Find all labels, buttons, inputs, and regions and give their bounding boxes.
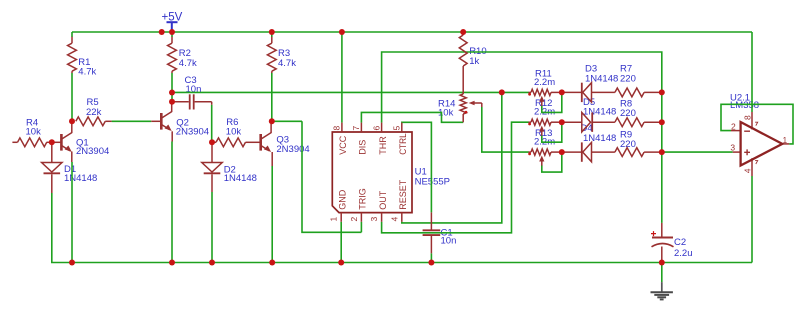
wire R3 top stub bbox=[271, 32, 273, 37]
wire C1 bottom bbox=[430, 253, 432, 262]
wire Q2 emitter stub bbox=[171, 131, 173, 141]
junction at (272,121) bbox=[269, 118, 275, 124]
capacitor C1 bbox=[430, 212, 432, 229]
svg-text:2N3904: 2N3904 bbox=[76, 146, 109, 157]
junction at (662,122) bbox=[659, 119, 665, 125]
svg-text:4.7k: 4.7k bbox=[278, 58, 296, 69]
power +5V symbol bbox=[167, 21, 178, 23]
wire trimmer wiper loop bbox=[542, 152, 562, 172]
svg-text:2.2u: 2.2u bbox=[674, 248, 693, 259]
junction at (172,102) bbox=[169, 99, 175, 105]
svg-text:220: 220 bbox=[620, 73, 636, 84]
IC U1 NE555P body bbox=[332, 132, 412, 213]
svg-text:10k: 10k bbox=[26, 127, 42, 138]
junction at (162,32) bbox=[159, 29, 165, 35]
svg-text:C2: C2 bbox=[674, 237, 686, 248]
potentiometer R14 bbox=[460, 94, 466, 114]
svg-text:4.7k: 4.7k bbox=[179, 58, 197, 69]
wire OUT net bbox=[382, 122, 529, 233]
wire CTRL net bbox=[402, 122, 432, 212]
wire output stub bbox=[782, 143, 789, 145]
transistor Q3 bbox=[259, 134, 262, 151]
svg-text:1N4148: 1N4148 bbox=[583, 107, 616, 118]
junction at (212,262) bbox=[209, 260, 215, 266]
transistor Q1 bbox=[60, 134, 63, 151]
ground bbox=[661, 263, 663, 283]
wire THR net bbox=[382, 52, 662, 123]
junction at (72,121) bbox=[69, 118, 75, 124]
junction at (341,262) bbox=[338, 260, 344, 266]
wire TRIG pin up bbox=[360, 222, 362, 233]
junction at (212,142) bbox=[209, 139, 215, 145]
svg-text:1N4148: 1N4148 bbox=[585, 74, 618, 85]
wire D2 anode bbox=[211, 142, 213, 162]
diode D5 bbox=[582, 113, 591, 132]
svg-text:RESET: RESET bbox=[398, 179, 408, 210]
svg-text:6: 6 bbox=[371, 126, 381, 131]
capacitor C2 bbox=[652, 237, 673, 239]
svg-text:NE555P: NE555P bbox=[415, 176, 450, 187]
junction at (172,32) bbox=[169, 29, 175, 35]
svg-text:CTRL: CTRL bbox=[398, 133, 408, 155]
junction at (431,262) bbox=[428, 260, 434, 266]
wire R13 right to D4 bbox=[562, 151, 582, 153]
resistor R2 bbox=[171, 37, 173, 43]
wire TRIG net vertical bbox=[302, 121, 361, 232]
junction at (272,262) bbox=[269, 260, 275, 266]
wire trimmer wiper loop bbox=[542, 92, 562, 112]
resistor R5 bbox=[76, 117, 106, 126]
trimmer R13 bbox=[529, 151, 532, 153]
wire GND pin down bbox=[340, 222, 342, 263]
svg-text:10k: 10k bbox=[226, 127, 242, 138]
wire opamp plus input bbox=[662, 151, 733, 153]
wire R1 bottom to Q1 collector node bbox=[71, 73, 73, 121]
svg-text:OUT: OUT bbox=[378, 190, 388, 210]
svg-text:2: 2 bbox=[349, 217, 359, 222]
svg-text:3: 3 bbox=[369, 217, 379, 222]
junction at (172,262) bbox=[169, 260, 175, 266]
wire D4 to R9 bbox=[592, 151, 615, 153]
wire DIS net bbox=[361, 112, 463, 122]
svg-text:7: 7 bbox=[351, 126, 361, 131]
wire right rail r1-r3 bbox=[661, 92, 663, 152]
svg-text:1N4148: 1N4148 bbox=[583, 133, 616, 144]
diode D4 bbox=[581, 142, 583, 161]
U1 pin 2 TRIG bbox=[360, 213, 362, 222]
wire R9 right bbox=[644, 151, 662, 153]
trimmer R11 bbox=[529, 91, 532, 93]
wire Q2 base stub bbox=[151, 120, 161, 122]
wire opamp V- stub bbox=[751, 158, 753, 176]
diode D2 bbox=[202, 163, 222, 173]
wire rail RESET net bbox=[172, 91, 529, 93]
wire D1 anode bbox=[51, 142, 53, 162]
resistor R9 bbox=[615, 148, 644, 157]
svg-text:4: 4 bbox=[389, 217, 399, 222]
wire R7 right bbox=[644, 91, 662, 93]
svg-text:8: 8 bbox=[332, 126, 342, 131]
wire R12 right to D5 bbox=[562, 121, 582, 123]
junction at (342,32) bbox=[339, 29, 345, 35]
op-amp U2.1 LM358 body bbox=[741, 122, 783, 166]
wire D3 to R7 bbox=[592, 91, 615, 93]
wire opamp V+ from rail bbox=[751, 32, 753, 112]
wire feedback loop bbox=[721, 104, 793, 144]
wire C2 bottom stub bbox=[661, 247, 663, 263]
svg-text:8: 8 bbox=[742, 115, 752, 120]
wire R8 right bbox=[644, 121, 662, 123]
svg-text:LM358: LM358 bbox=[730, 100, 759, 111]
U1 pin 1 GND bbox=[340, 213, 342, 222]
svg-text:3: 3 bbox=[730, 142, 735, 152]
wire D1 cathode bbox=[51, 174, 53, 193]
U1 pin 4 RESET bbox=[401, 213, 403, 222]
wire VCC pin up bbox=[341, 32, 343, 123]
wire Q2 emitter down bbox=[171, 142, 173, 263]
svg-text:GND: GND bbox=[337, 189, 347, 210]
trimmer R12 bbox=[529, 121, 532, 123]
junction at (463,32) bbox=[460, 29, 466, 35]
U1 pin 7 DIS bbox=[360, 123, 362, 132]
U1 pin 3 OUT bbox=[381, 213, 383, 222]
svg-text:1N4148: 1N4148 bbox=[224, 173, 257, 184]
svg-text:5: 5 bbox=[392, 126, 402, 131]
junction at (272,32) bbox=[269, 29, 275, 35]
junction at (562,152) bbox=[559, 149, 565, 155]
wire R2 bottom to node bbox=[171, 73, 173, 93]
wire opamp plus stub bbox=[733, 151, 741, 153]
svg-text:TRIG: TRIG bbox=[358, 188, 368, 210]
wire trimmer wiper loop bbox=[542, 122, 562, 142]
svg-text:4.7k: 4.7k bbox=[78, 67, 96, 78]
U1 pin 8 VCC bbox=[341, 123, 343, 132]
wire C2 branch bbox=[661, 152, 663, 223]
transistor Q2 bbox=[160, 113, 163, 130]
svg-text:1: 1 bbox=[783, 136, 788, 145]
svg-text:1k: 1k bbox=[469, 56, 479, 67]
wire D5 to R8 bbox=[592, 121, 615, 123]
diode D3 bbox=[581, 83, 583, 102]
svg-text:1: 1 bbox=[329, 217, 339, 222]
wire R14 bottom elbow bbox=[462, 114, 464, 122]
junction at (562,92) bbox=[559, 89, 565, 95]
wire opamp V+ stub bbox=[751, 112, 753, 130]
resistor R6 bbox=[212, 141, 216, 143]
wire Q3 collector to TRIG net bbox=[272, 120, 302, 122]
U1 pin 5 CTRL bbox=[401, 123, 403, 132]
U1 pin 6 THR bbox=[381, 123, 383, 132]
wire C2 top stub bbox=[661, 223, 663, 238]
junction at (662,152) bbox=[659, 149, 665, 155]
resistor R7 bbox=[615, 88, 644, 97]
resistor R1 bbox=[71, 37, 73, 43]
wire Q3 emitter stub bbox=[271, 152, 273, 166]
wire node to C3/Q2 collector bbox=[171, 93, 173, 102]
wire +5V top rail bbox=[72, 31, 752, 33]
resistor R8 bbox=[615, 118, 644, 127]
wire Q1 emitter down bbox=[71, 162, 73, 263]
junction at (662,92) bbox=[659, 89, 665, 95]
wire D1 to bottom rail bbox=[52, 193, 752, 263]
resistor R10 bbox=[462, 34, 464, 37]
wire opamp V- down bbox=[751, 176, 753, 263]
resistor R4 bbox=[12, 141, 17, 143]
svg-text:DIS: DIS bbox=[358, 140, 368, 155]
svg-text:220: 220 bbox=[620, 108, 636, 119]
wire R1 top stub bbox=[71, 32, 73, 37]
svg-text:10n: 10n bbox=[441, 236, 457, 247]
wire R5 right to Q2 base bbox=[112, 120, 152, 122]
svg-text:1N4148: 1N4148 bbox=[64, 173, 97, 184]
junction at (662,262) bbox=[659, 260, 665, 266]
wire R10 top stub bbox=[462, 32, 464, 35]
resistor R3 bbox=[271, 37, 273, 43]
wire D2 to bottom rail bbox=[211, 192, 213, 263]
capacitor C3 bbox=[172, 101, 189, 103]
svg-text:THR: THR bbox=[378, 136, 388, 155]
wire R11 right to D3 bbox=[562, 91, 582, 93]
junction at (72,262) bbox=[69, 260, 75, 266]
wire Q3 emitter down bbox=[271, 166, 273, 263]
junction at (52,142) bbox=[49, 139, 55, 145]
wire R2 top stub bbox=[171, 32, 173, 37]
svg-text:2.2m: 2.2m bbox=[534, 77, 555, 88]
svg-text:2N3904: 2N3904 bbox=[276, 144, 309, 155]
svg-text:2N3904: 2N3904 bbox=[176, 127, 209, 138]
junction at (502,92) bbox=[499, 89, 505, 95]
wire D2 cathode bbox=[211, 174, 213, 192]
wire Q1 emitter stub bbox=[71, 152, 73, 163]
wire opamp minus stub bbox=[731, 130, 741, 132]
wire R14 wiper net bbox=[482, 107, 529, 152]
svg-text:VCC: VCC bbox=[338, 135, 348, 155]
junction at (172,92) bbox=[169, 90, 175, 96]
svg-text:4: 4 bbox=[742, 168, 752, 173]
diode D1 bbox=[42, 163, 62, 173]
junction at (562,122) bbox=[559, 119, 565, 125]
wire R3 bottom to Q3 collector node bbox=[271, 73, 273, 121]
wire C3 right elbow bbox=[211, 105, 213, 143]
svg-text:2: 2 bbox=[731, 122, 736, 132]
wire RESET net bbox=[402, 92, 502, 223]
